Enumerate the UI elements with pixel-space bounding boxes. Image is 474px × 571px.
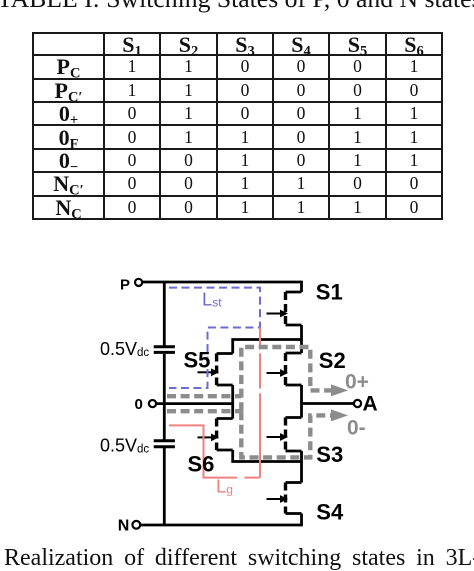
capacitor C1 (0.5Vdc upper) (154, 347, 175, 353)
svg-text:S1: S1 (316, 280, 343, 305)
svg-text:S3: S3 (316, 442, 343, 467)
wire: leg rail P to S1 (300, 281, 303, 292)
capacitor C2 (0.5Vdc lower) (154, 441, 175, 447)
wire: output to node A (302, 402, 355, 405)
wire: leg rail S1 to S2 (300, 325, 303, 353)
table title (cropped at top) (0, 0, 474, 11)
node A terminal (354, 400, 361, 407)
figure caption (cropped at bottom) (4, 546, 474, 570)
svg-text:N: N (118, 517, 130, 534)
terminal N (132, 521, 140, 529)
commutation path: neutral feed upper (gray dashed) (167, 394, 241, 398)
wire: S5 drain to leg junction (233, 340, 302, 354)
arrowhead 0- (331, 409, 348, 421)
svg-text:S4: S4 (316, 500, 344, 525)
terminal P (135, 279, 142, 286)
svg-text:0.5Vdc: 0.5Vdc (100, 436, 149, 456)
transistor S1 (267, 292, 302, 325)
svg-text:0+: 0+ (345, 370, 369, 393)
stray inductance path Lst (blue dashed) (169, 288, 260, 388)
transistor S6 (198, 419, 233, 451)
transistor S2 (267, 353, 302, 385)
arrowhead 0+ (331, 384, 348, 396)
wire: dc-link left rail upper (163, 282, 166, 346)
wire: leg rail S3 to S4 (300, 451, 303, 483)
svg-text:0-: 0- (347, 417, 366, 440)
wire: P rail top horizontal (143, 281, 302, 284)
svg-text:0: 0 (135, 396, 143, 413)
wire: N rail bottom horizontal (140, 524, 302, 527)
svg-text:S6: S6 (188, 452, 215, 477)
commutation loop 0+ (gray dashed) (241, 347, 331, 411)
switching states table (32, 32, 443, 220)
wire: leg rail S4 to N (300, 514, 303, 527)
wire: neutral 0 horizontal (156, 402, 233, 405)
wire: leg rail S2 to S3 (300, 385, 303, 418)
commutation loop 0- (gray dashed) (241, 411, 331, 457)
commutation path: neutral feed lower (gray dashed) (167, 409, 241, 413)
wire: left rail between capacitors (163, 354, 166, 440)
transistor S5 (198, 354, 233, 386)
gate loop path Lg (red) (169, 328, 260, 478)
wire: S6 source to leg junction (233, 450, 302, 462)
wire: dc-link left rail lower (163, 448, 166, 525)
wire: S5 source to neutral and S6 drain (231, 385, 234, 419)
svg-text:0.5Vdc: 0.5Vdc (100, 339, 149, 359)
terminal 0 (149, 400, 156, 407)
svg-text:A: A (363, 392, 378, 415)
transistor S4 (267, 483, 302, 514)
svg-text:Lg: Lg (216, 476, 233, 497)
svg-text:S2: S2 (319, 348, 346, 373)
transistor S3 (267, 418, 302, 452)
svg-text:S5: S5 (184, 347, 211, 372)
svg-text:P: P (120, 276, 130, 293)
svg-text:Lst: Lst (202, 288, 222, 309)
